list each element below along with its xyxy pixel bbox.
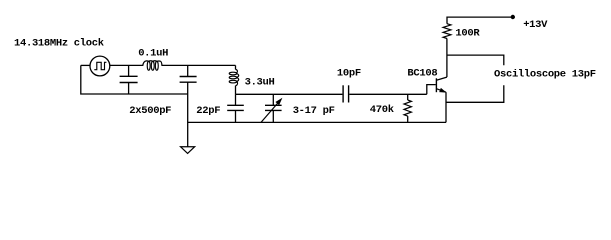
svg-text:3.3uH: 3.3uH [245,77,275,89]
svg-text:100R: 100R [455,27,480,39]
svg-text:+13V: +13V [523,19,548,31]
svg-text:2x500pF: 2x500pF [129,105,171,117]
svg-text:22pF: 22pF [196,105,220,117]
svg-text:BC108: BC108 [407,67,437,79]
svg-text:14.318MHz clock: 14.318MHz clock [14,38,104,50]
svg-text:10pF: 10pF [337,68,361,80]
svg-text:Oscilloscope 13pF: Oscilloscope 13pF [494,69,596,81]
svg-text:470k: 470k [370,104,394,116]
svg-text:0.1uH: 0.1uH [138,47,168,59]
svg-text:3-17 pF: 3-17 pF [293,105,335,117]
